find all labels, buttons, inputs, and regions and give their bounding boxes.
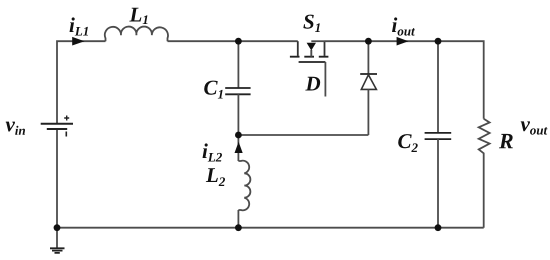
transistor S1 gate bar	[299, 61, 326, 63]
node dot top diode	[365, 38, 372, 45]
label C1	[204, 81, 222, 99]
node dot mid C1/L2	[235, 132, 242, 139]
label R	[499, 134, 513, 148]
battery minus tick	[65, 132, 67, 137]
inductor L1	[105, 27, 168, 42]
wire L2 branch top	[237, 135, 239, 161]
wire left rail below battery	[56, 129, 58, 228]
node dot top C2	[435, 38, 442, 45]
ground	[56, 228, 58, 248]
battery plate long (vin +)	[41, 123, 73, 125]
diode triangle	[361, 75, 376, 90]
wire mid horizontal (C1/L2 node to diode)	[238, 134, 368, 136]
label C2	[398, 134, 417, 152]
node dot bottom left	[54, 224, 61, 231]
capacitor C1 plates	[225, 88, 250, 94]
resistor R zigzag	[479, 119, 490, 228]
node dot top C1	[235, 38, 242, 45]
diode cathode bar	[360, 73, 377, 75]
capacitor C2 branch top	[437, 41, 439, 133]
inductor L2	[238, 161, 250, 211]
arrow iL2	[235, 142, 243, 153]
label L1	[129, 8, 147, 24]
arrow iout	[397, 37, 409, 46]
wire bottom rail	[57, 227, 484, 229]
label D	[305, 77, 320, 91]
transistor S1 gate lead	[324, 62, 326, 97]
wire L2 branch bottom	[237, 210, 239, 228]
wire top-left + left rail to battery	[57, 41, 106, 123]
node dot bottom C2	[435, 224, 442, 231]
label L2	[206, 168, 225, 186]
capacitor C1 branch top	[237, 41, 239, 88]
node dot bottom L2	[235, 224, 242, 231]
capacitor C1 branch bottom	[237, 94, 239, 135]
transistor S1 source tick	[324, 41, 326, 56]
diode branch top	[367, 41, 369, 74]
arrow iL1	[72, 37, 84, 46]
label iout	[392, 17, 415, 35]
label vout	[521, 121, 548, 134]
ground bars	[50, 248, 65, 253]
transistor S1 drain tick	[297, 41, 299, 56]
label iL2	[203, 143, 222, 161]
battery plate short (vin -)	[47, 128, 67, 130]
label vin	[6, 122, 25, 135]
transistor S1 body stem	[310, 50, 312, 57]
capacitor C2 branch bottom	[437, 139, 439, 228]
wire top right (S1 to right rail) + right rail down to resistor	[325, 41, 484, 119]
label iL1	[70, 17, 88, 35]
label S1	[303, 15, 319, 32]
transistor S1 body-source wire	[311, 40, 324, 42]
arrow S1 body	[307, 43, 316, 51]
transistor S1 channel dashes	[290, 56, 329, 58]
battery plus sign	[64, 116, 69, 121]
diode branch bottom	[367, 89, 369, 135]
wire top mid (L1 to S1)	[168, 40, 298, 42]
capacitor C2 plates	[425, 133, 452, 139]
